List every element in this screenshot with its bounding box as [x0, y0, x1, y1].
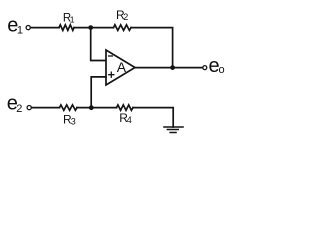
wire e2 to R3 [32, 107, 60, 109]
wire R2 to feedback corner [131, 28, 173, 68]
resistor R3 [60, 105, 78, 110]
input terminal e2 [27, 106, 31, 110]
ground [164, 127, 183, 133]
wire non-inverting input [91, 77, 106, 107]
op-amp minus pin label [109, 55, 113, 57]
node B junction dot [89, 105, 94, 110]
svg-text:1: 1 [70, 14, 75, 24]
input terminal e1 [26, 26, 30, 30]
wire e1 to R1 [31, 27, 59, 29]
resistor R4 [117, 105, 134, 110]
svg-text:o: o [219, 64, 225, 76]
wire R1 to R2 [74, 27, 114, 29]
svg-text:4: 4 [127, 115, 132, 125]
svg-text:3: 3 [71, 116, 76, 126]
op-amp plus pin label [109, 72, 114, 77]
svg-text:1: 1 [17, 24, 23, 36]
output terminal eo [203, 66, 207, 70]
wire R4 to ground [133, 108, 173, 127]
node A junction dot [88, 25, 93, 30]
resistor R2 [114, 25, 132, 31]
wire R3 to R4 [77, 107, 117, 109]
resistor R1 [59, 25, 74, 31]
svg-text:2: 2 [123, 12, 128, 22]
wire output to eo [135, 67, 203, 69]
op-amp U1 [106, 50, 135, 85]
svg-text:2: 2 [16, 103, 22, 115]
svg-text:A: A [117, 59, 127, 75]
node output junction dot [170, 65, 175, 70]
wire inverting input [91, 29, 106, 61]
